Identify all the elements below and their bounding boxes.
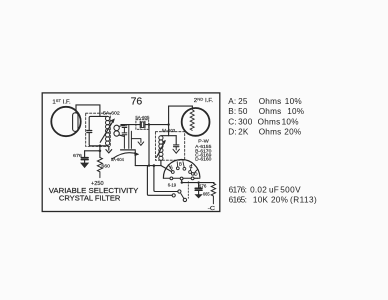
ground under 5A-602 (106, 147, 112, 153)
wire to upper jack terminal (154, 166, 178, 192)
capacitor 676 (left) (84, 151, 86, 158)
svg-text:C: C (189, 164, 193, 169)
ground (left 676) (84, 160, 86, 163)
svg-text:676: 676 (199, 184, 207, 189)
svg-text:A: A (170, 164, 174, 169)
svg-text:6-19: 6-19 (168, 182, 177, 187)
svg-text:10%: 10% (285, 97, 302, 106)
svg-text:10%: 10% (282, 117, 299, 126)
wire horizontal bus (135, 165, 161, 167)
vertical from phasing cap (134, 151, 136, 166)
svg-text:2ND I.F.: 2ND I.F. (194, 97, 214, 105)
transformer can T2 "2nd I.F." (182, 108, 210, 136)
svg-text:C:: C: (228, 117, 237, 126)
svg-text:-C: -C (208, 206, 216, 212)
junction at capacitor 676 tap (197, 181, 199, 183)
junction node at grid lead (167, 123, 169, 125)
svg-text:50: 50 (238, 107, 248, 116)
svg-text:D-6160: D-6160 (195, 157, 212, 162)
junction dot at 676 tap (99, 150, 102, 153)
svg-text:5A-604: 5A-604 (111, 157, 124, 162)
svg-text:76: 76 (131, 96, 143, 108)
svg-text:500V: 500V (280, 185, 301, 194)
svg-text:6176:: 6176: (229, 185, 248, 194)
capacitor plates (tank) (87, 131, 92, 133)
svg-text:P-W: P-W (198, 138, 210, 143)
rotary switch dome (163, 159, 200, 178)
svg-text:B: B (179, 161, 182, 166)
crystal unit 5A-605 dashed box (136, 120, 149, 130)
contact B right (183, 167, 186, 170)
switch base terminal 2 (180, 177, 183, 180)
svg-text:660: 660 (101, 163, 110, 168)
svg-text:25: 25 (238, 97, 248, 106)
inner top wire (161, 135, 176, 137)
junction dot tank bottom (99, 145, 102, 148)
junction on bus at crystal branch (148, 164, 150, 166)
capacitor 676 (right) (198, 183, 200, 188)
stub to ground (131, 139, 143, 146)
rotor arm (181, 194, 184, 199)
variable arrow through L1 (100, 120, 113, 142)
capacitor in 5A-603 (174, 136, 179, 147)
trimmer capacitors (122, 125, 127, 149)
crystal Y1 (121, 124, 140, 126)
svg-text:665: 665 (203, 191, 210, 196)
svg-text:1ST I.F.: 1ST I.F. (52, 98, 71, 106)
dashed stub at base right (194, 177, 199, 179)
contact D (192, 173, 195, 176)
svg-text:CRYSTAL FILTER: CRYSTAL FILTER (59, 194, 121, 203)
contact A (171, 171, 174, 174)
svg-text:5A-602: 5A-602 (103, 110, 120, 115)
svg-text:Ohms: Ohms (259, 97, 282, 106)
contact C stub (190, 164, 191, 170)
svg-text:Ohms: Ohms (259, 127, 282, 136)
svg-text:Ohms: Ohms (258, 117, 281, 126)
tank loop wiring (89, 133, 107, 146)
svg-text:300: 300 (238, 117, 253, 126)
jack terminal upper (178, 190, 181, 193)
svg-text:10K: 10K (253, 195, 269, 204)
top wire to 2nd IF (169, 106, 193, 108)
winding inside T2 (190, 110, 194, 131)
junction on bus at jack branch (153, 164, 156, 167)
svg-text:6165:: 6165: (229, 195, 248, 204)
wire down to resistor 660 (99, 146, 101, 158)
phasing capacitor verticals (129, 125, 132, 149)
wire from T1 plate to tank top (76, 105, 100, 117)
variable coil L1 in 5A-602 (106, 116, 110, 145)
svg-text:Ohms: Ohms (259, 107, 282, 116)
coil in 5A-603 (159, 136, 163, 161)
svg-text:D:: D: (228, 127, 237, 136)
svg-text:(R113): (R113) (290, 195, 317, 204)
svg-text:676: 676 (73, 153, 82, 158)
ground in 5A-603 (173, 147, 179, 154)
svg-text:20%: 20% (284, 127, 301, 136)
wire to capacitor 676 tap (85, 150, 100, 152)
transformer can T1 "1st I.F." (51, 107, 80, 136)
wire rotor to resistor 665 (182, 180, 214, 183)
variable arrow through coil (157, 142, 165, 158)
svg-text:D: D (194, 171, 198, 176)
vertical from crystal node down (148, 125, 150, 166)
svg-text:5A-605: 5A-605 (135, 115, 149, 120)
switch base terminal 1 (170, 177, 173, 180)
junction node at crystal output (148, 123, 150, 125)
coil bottom lead (160, 160, 162, 165)
tuning slug inside T1 (73, 113, 78, 132)
dashed linkage (187, 182, 189, 199)
ground (right 676) (198, 190, 200, 194)
contact C (189, 171, 192, 174)
svg-text:20%: 20% (271, 195, 288, 204)
phasing capacitor plates (121, 149, 136, 151)
svg-text:10%: 10% (287, 107, 304, 116)
svg-text:5A-603: 5A-603 (162, 128, 176, 133)
contact B left stub (176, 162, 179, 167)
svg-text:B:: B: (228, 107, 236, 116)
dashed box 5A-603 (155, 132, 184, 161)
switch base terminal 3 (191, 177, 194, 180)
junction at rotor stem (181, 181, 183, 183)
vertical to top wire (168, 106, 170, 136)
secondary coupling coil (114, 125, 119, 136)
contact A stub (168, 165, 172, 171)
hand-lettered labels (49, 96, 216, 212)
frame border (42, 93, 220, 212)
svg-text:0.02: 0.02 (250, 185, 267, 194)
resistor 665 (211, 183, 215, 204)
svg-text:A:: A: (228, 97, 236, 106)
svg-text:2K: 2K (238, 127, 249, 136)
wire bus to contact A (161, 166, 171, 172)
contact D stub (195, 169, 198, 172)
wire to lower jack terminal (147, 166, 172, 196)
dashed box 5A-602 (86, 113, 111, 146)
contact B right stub (183, 162, 184, 168)
jack terminal lower (172, 194, 175, 197)
contact B left (176, 167, 179, 170)
5A-604 curved arrow (112, 153, 138, 159)
typed legend right side (228, 97, 317, 204)
resistor 660 (97, 157, 102, 177)
svg-text:uF: uF (269, 185, 279, 194)
